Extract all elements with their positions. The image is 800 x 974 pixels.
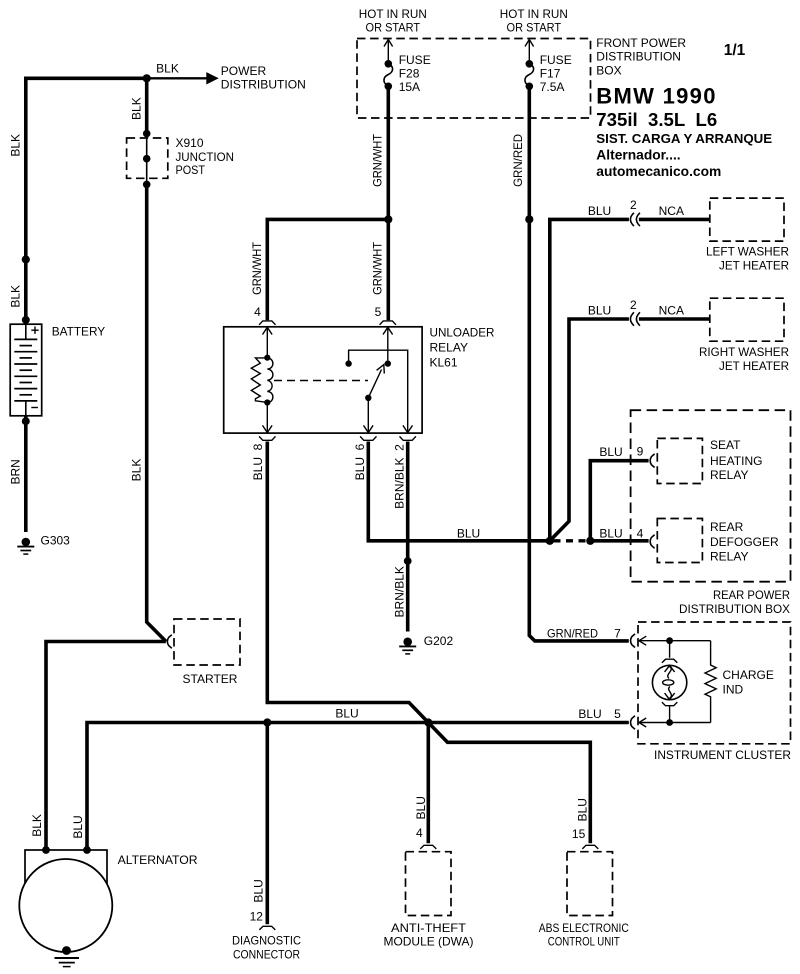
svg-text:BLK: BLK (30, 814, 44, 837)
svg-text:BLU: BLU (588, 304, 611, 318)
svg-text:CHARGE: CHARGE (723, 668, 774, 682)
svg-text:REAR: REAR (710, 520, 744, 534)
svg-text:INSTRUMENT CLUSTER: INSTRUMENT CLUSTER (654, 748, 791, 762)
svg-text:GRN/RED: GRN/RED (511, 134, 525, 187)
svg-text:HOT IN RUN: HOT IN RUN (359, 7, 427, 21)
svg-text:RELAY: RELAY (710, 550, 748, 564)
svg-text:CONTROL UNIT: CONTROL UNIT (548, 935, 621, 949)
svg-text:BLU: BLU (457, 526, 480, 540)
svg-text:DISTRIBUTION: DISTRIBUTION (596, 50, 681, 64)
svg-text:F28: F28 (399, 66, 420, 80)
svg-text:GRN/WHT: GRN/WHT (371, 133, 385, 187)
svg-text:BLU: BLU (578, 707, 601, 721)
svg-text:BLU: BLU (599, 445, 622, 459)
svg-text:Alternador....: Alternador.... (596, 148, 680, 163)
svg-text:NCA: NCA (659, 204, 684, 218)
svg-text:BLU: BLU (599, 526, 622, 540)
svg-text:BLU: BLU (71, 815, 85, 838)
svg-text:2: 2 (630, 198, 637, 212)
svg-text:5: 5 (375, 305, 382, 319)
svg-text:BLU 6: BLU 6 (353, 443, 367, 480)
svg-text:GRN/WHT: GRN/WHT (250, 241, 264, 295)
svg-text:2: 2 (630, 298, 637, 312)
svg-text:BLU: BLU (575, 798, 589, 821)
svg-text:LEFT WASHER: LEFT WASHER (706, 244, 789, 258)
svg-text:MODULE (DWA): MODULE (DWA) (384, 935, 474, 949)
svg-text:BLU: BLU (588, 204, 611, 218)
svg-text:BLU: BLU (414, 796, 428, 819)
svg-text:BLK: BLK (9, 285, 23, 308)
svg-text:DISTRIBUTION BOX: DISTRIBUTION BOX (679, 602, 790, 616)
svg-text:735il 3.5L L6: 735il 3.5L L6 (596, 109, 717, 130)
svg-text:G303: G303 (41, 533, 71, 547)
svg-text:DIAGNOSTIC: DIAGNOSTIC (232, 934, 301, 948)
svg-text:DISTRIBUTION: DISTRIBUTION (221, 77, 306, 91)
svg-text:HOT IN RUN: HOT IN RUN (500, 7, 568, 21)
svg-text:ALTERNATOR: ALTERNATOR (118, 853, 198, 867)
svg-text:NCA: NCA (659, 304, 684, 318)
svg-text:JET HEATER: JET HEATER (719, 359, 789, 373)
svg-text:HEATING: HEATING (710, 454, 762, 468)
svg-text:BRN/BLK: BRN/BLK (392, 566, 406, 617)
svg-text:5: 5 (614, 707, 621, 721)
svg-text:7.5A: 7.5A (540, 80, 565, 94)
svg-text:GRN/WHT: GRN/WHT (371, 241, 385, 295)
svg-text:automecanico.com: automecanico.com (596, 164, 721, 179)
svg-text:KL61: KL61 (430, 355, 458, 369)
svg-text:BRN/BLK 2: BRN/BLK 2 (392, 444, 406, 509)
svg-text:9: 9 (637, 445, 644, 459)
svg-text:POWER: POWER (221, 64, 267, 78)
svg-text:G202: G202 (424, 634, 454, 648)
svg-text:RELAY: RELAY (430, 340, 468, 354)
svg-text:JET HEATER: JET HEATER (719, 258, 789, 272)
svg-text:CONNECTOR: CONNECTOR (233, 947, 300, 961)
svg-text:F17: F17 (540, 66, 561, 80)
svg-text:POST: POST (176, 163, 206, 177)
svg-text:FUSE: FUSE (540, 53, 572, 67)
svg-text:OR START: OR START (507, 20, 562, 34)
svg-text:GRN/RED: GRN/RED (547, 626, 598, 640)
svg-text:BLU: BLU (251, 879, 265, 902)
svg-text:OR START: OR START (366, 20, 421, 34)
svg-text:JUNCTION: JUNCTION (176, 150, 235, 164)
svg-text:4: 4 (416, 826, 423, 840)
svg-text:BLK: BLK (156, 61, 179, 75)
svg-text:BLK: BLK (9, 134, 23, 157)
svg-text:BMW 1990: BMW 1990 (596, 84, 716, 109)
svg-text:IND: IND (723, 683, 744, 697)
svg-text:DEFOGGER: DEFOGGER (710, 535, 779, 549)
svg-text:FUSE: FUSE (399, 53, 431, 67)
svg-text:STARTER: STARTER (183, 672, 238, 686)
svg-text:BATTERY: BATTERY (52, 325, 105, 339)
svg-text:ANTI-THEFT: ANTI-THEFT (391, 921, 467, 935)
svg-text:BLU 8: BLU 8 (251, 443, 265, 480)
svg-text:REAR POWER: REAR POWER (713, 588, 790, 602)
svg-text:X910: X910 (176, 136, 204, 150)
svg-text:4: 4 (637, 526, 644, 540)
svg-text:BLU: BLU (335, 707, 358, 721)
svg-text:RELAY: RELAY (710, 468, 748, 482)
svg-text:BOX: BOX (596, 64, 621, 78)
svg-text:15: 15 (572, 827, 586, 841)
svg-text:15A: 15A (399, 80, 420, 94)
svg-text:UNLOADER: UNLOADER (430, 325, 495, 339)
svg-text:1/1: 1/1 (724, 42, 746, 59)
svg-text:7: 7 (614, 626, 621, 640)
svg-text:BLK: BLK (129, 97, 143, 120)
svg-text:RIGHT WASHER: RIGHT WASHER (699, 345, 789, 359)
svg-text:ABS ELECTRONIC: ABS ELECTRONIC (539, 921, 629, 935)
svg-text:4: 4 (254, 305, 261, 319)
svg-text:12: 12 (250, 909, 264, 923)
svg-text:SIST. CARGA Y ARRANQUE: SIST. CARGA Y ARRANQUE (596, 131, 772, 146)
svg-text:FRONT POWER: FRONT POWER (596, 36, 686, 50)
svg-text:BLK: BLK (130, 459, 144, 482)
svg-text:BRN: BRN (9, 459, 23, 484)
svg-text:SEAT: SEAT (710, 438, 741, 452)
